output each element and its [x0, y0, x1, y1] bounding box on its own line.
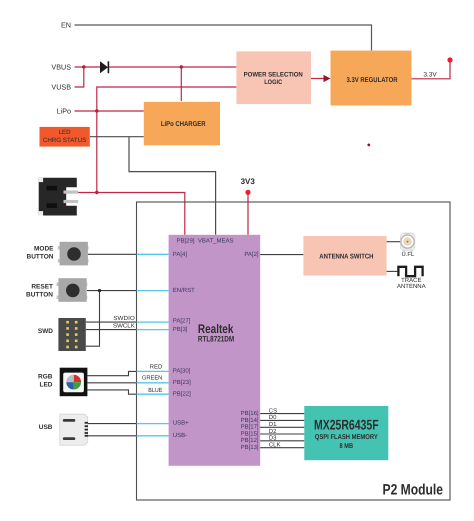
- net VBUS wire: [51, 63, 236, 72]
- svg-text:MODE: MODE: [34, 246, 54, 253]
- junction VBUS/VUSB: [82, 65, 85, 68]
- antenna switch box U6: [303, 236, 386, 276]
- svg-text:BUTTON: BUTTON: [27, 253, 54, 260]
- svg-text:LED: LED: [59, 129, 72, 136]
- net VUSB wire: [51, 67, 83, 92]
- svg-text:ANTENNA: ANTENNA: [397, 283, 426, 290]
- QSPI bus wires CS D0 D1 D2 D3 CLK: [260, 407, 304, 448]
- label RGB LED: [38, 374, 53, 389]
- svg-text:U.FL: U.FL: [402, 252, 415, 258]
- svg-text:PB[22]: PB[22]: [173, 390, 191, 397]
- wire USB-: [88, 435, 169, 437]
- junction battery rail: [95, 191, 98, 194]
- wire switch to U.FL: [387, 241, 401, 243]
- svg-text:3V3: 3V3: [241, 177, 256, 186]
- battery rail wire down: [96, 111, 98, 193]
- svg-text:TRACE: TRACE: [401, 277, 421, 284]
- junction VBUS to LiPo charger: [180, 65, 183, 68]
- svg-text:PA[2]: PA[2]: [244, 251, 259, 258]
- svg-text:PB[16]: PB[16]: [241, 410, 259, 417]
- Realtek RTL8721DM chip U1: [169, 235, 261, 466]
- wire chrg status to Realtek: [129, 137, 216, 235]
- label MODE BUTTON: [27, 246, 55, 261]
- svg-text:USB-: USB-: [173, 432, 187, 439]
- svg-text:MX25R6435F: MX25R6435F: [314, 417, 379, 433]
- wire GREEN: [87, 374, 168, 382]
- stray dot: [367, 144, 370, 147]
- wire LED chrg status to LiPo charger: [90, 136, 144, 138]
- svg-text:SWD: SWD: [38, 328, 53, 335]
- svg-text:BUTTON: BUTTON: [26, 291, 53, 298]
- diode D1: [100, 61, 108, 73]
- arrow PSL to regulator: [311, 75, 331, 82]
- label RESET BUTTON: [26, 284, 53, 299]
- wire mode button to PA[4]: [88, 253, 169, 255]
- svg-text:LOGIC: LOGIC: [264, 79, 282, 86]
- svg-text:RGB: RGB: [38, 374, 53, 381]
- wire reset to SWD connector: [86, 291, 100, 347]
- wire switch to trace antenna: [387, 270, 398, 272]
- svg-text:PA[27]: PA[27]: [173, 318, 191, 325]
- svg-text:PB[12]: PB[12]: [241, 437, 259, 444]
- svg-text:USB+: USB+: [173, 420, 189, 427]
- svg-text:EN/RST: EN/RST: [173, 287, 195, 294]
- P2 module outline: [137, 202, 451, 500]
- svg-text:3.3V: 3.3V: [423, 72, 437, 79]
- svg-text:LED: LED: [40, 382, 53, 389]
- junction reset/SWD: [98, 289, 101, 292]
- svg-text:BLUE: BLUE: [148, 387, 162, 394]
- 3.3V regulator box U4: [331, 51, 412, 106]
- net 3.3V output wire: [412, 60, 451, 79]
- svg-text:QSPI FLASH MEMORY: QSPI FLASH MEMORY: [315, 434, 378, 441]
- svg-text:POWER SELECTION: POWER SELECTION: [244, 71, 303, 78]
- wire battery connector to rail: [77, 192, 97, 194]
- svg-text:3.3V REGULATOR: 3.3V REGULATOR: [347, 77, 398, 84]
- svg-text:RTL8721DM: RTL8721DM: [198, 335, 234, 344]
- wire RED: [87, 363, 168, 375]
- U.FL connector J4: [400, 233, 415, 253]
- svg-text:LiPo CHARGER: LiPo CHARGER: [161, 120, 206, 128]
- SWD connector J2: [58, 318, 85, 351]
- svg-text:VBUS: VBUS: [51, 63, 71, 72]
- svg-text:PB[15]: PB[15]: [241, 430, 259, 437]
- trace antenna ANT1: [397, 267, 426, 290]
- svg-text:PA[30]: PA[30]: [173, 368, 191, 375]
- svg-text:LiPo: LiPo: [57, 107, 71, 116]
- LED CHRG STATUS box D3: [40, 127, 90, 147]
- RGB LED D2: [60, 368, 88, 397]
- wire reset button to EN/RST: [87, 290, 169, 292]
- wire VUSB rail to power selection logic: [97, 87, 237, 111]
- net EN: [61, 21, 372, 51]
- terminal dot 3V3: [245, 190, 250, 195]
- wire VBUS junction down to LiPo charger: [180, 67, 182, 101]
- svg-text:EN: EN: [61, 21, 71, 30]
- svg-text:CHRG STATUS: CHRG STATUS: [43, 137, 86, 144]
- svg-text:8 MB: 8 MB: [340, 443, 354, 450]
- svg-text:RESET: RESET: [31, 284, 53, 291]
- wire SWDIO: [86, 315, 169, 322]
- svg-text:PB[3]: PB[3]: [173, 326, 188, 333]
- wire SWCLK: [86, 323, 169, 330]
- wire PA[2] to antenna switch: [260, 254, 303, 256]
- svg-text:PB[23]: PB[23]: [173, 379, 191, 386]
- svg-text:SWCLK: SWCLK: [113, 323, 135, 330]
- svg-text:VBAT_MEAS: VBAT_MEAS: [198, 238, 234, 245]
- svg-text:SWDIO: SWDIO: [113, 315, 135, 322]
- USB connector J3: [60, 414, 88, 445]
- mode button SW1: [58, 242, 89, 266]
- battery connector J1: [39, 178, 78, 216]
- svg-text:GREEN: GREEN: [142, 374, 162, 381]
- terminal dot 3.3V: [447, 57, 452, 62]
- svg-text:RED: RED: [150, 363, 163, 370]
- reset button SW2: [57, 278, 88, 302]
- svg-text:USB: USB: [39, 424, 53, 431]
- svg-text:PB[29]: PB[29]: [177, 238, 195, 245]
- wire VBAT to Realtek: [97, 193, 185, 235]
- svg-text:PB[14]: PB[14]: [241, 417, 259, 424]
- svg-text:P2 Module: P2 Module: [383, 482, 444, 499]
- wire BLUE: [87, 387, 168, 394]
- power selection logic box U3: [236, 51, 311, 104]
- QSPI flash memory U2 MX25R6435F: [304, 406, 388, 460]
- net LiPo wire: [57, 107, 144, 116]
- wire USB+: [88, 423, 169, 425]
- svg-text:VUSB: VUSB: [51, 83, 71, 92]
- svg-text:PB[17]: PB[17]: [241, 424, 259, 431]
- svg-text:PB[13]: PB[13]: [241, 444, 259, 451]
- LiPo charger box U5: [144, 102, 220, 146]
- wire 3V3 to Realtek: [247, 192, 249, 235]
- svg-text:ANTENNA SWITCH: ANTENNA SWITCH: [319, 253, 373, 260]
- junction LiPo rail: [95, 109, 98, 112]
- svg-text:PA[4]: PA[4]: [173, 251, 188, 258]
